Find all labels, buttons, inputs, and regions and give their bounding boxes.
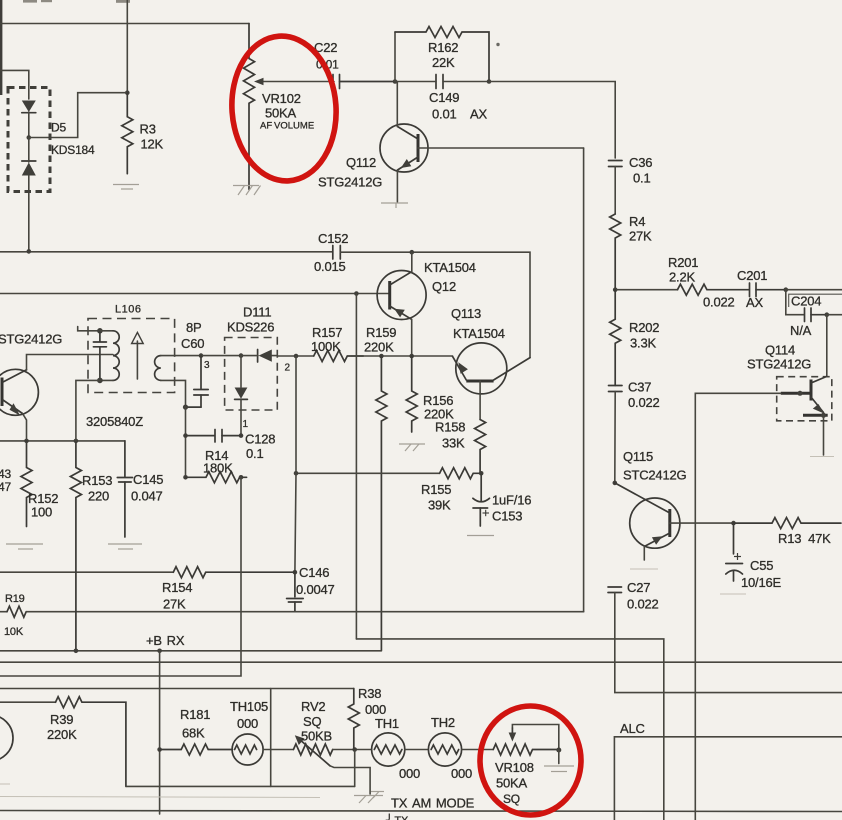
svg-text:KTA1504: KTA1504	[424, 260, 476, 275]
capacitor C153 (electrolytic)	[473, 473, 490, 526]
node: L106 cap bottom	[97, 378, 103, 384]
capacitor C204	[805, 308, 827, 322]
svg-text:SQ: SQ	[303, 714, 321, 729]
svg-text:43: 43	[0, 467, 11, 481]
svg-text:KDS184: KDS184	[51, 143, 95, 157]
ground for R3	[113, 185, 139, 190]
wire: emitter rail with R152/R153 taps	[0, 440, 125, 442]
plus sign C153	[483, 510, 490, 516]
ground fragment left of TX label (faint)	[371, 792, 384, 799]
svg-text:AX: AX	[746, 295, 763, 310]
VR108 wiper arrow and strap	[509, 725, 559, 751]
wire: TH105 to RV2	[263, 749, 293, 751]
node: R181 left junction	[157, 747, 162, 752]
node: C128 left	[183, 433, 188, 438]
wire: top stub tick	[78, 327, 100, 331]
svg-text:180K: 180K	[203, 461, 233, 476]
RV2 wiper arrow	[295, 735, 370, 794]
svg-text:Q12: Q12	[432, 279, 456, 294]
svg-text:C149: C149	[429, 90, 459, 105]
ground for VR102 (hatched)	[233, 186, 261, 196]
dashed box D111	[225, 338, 278, 411]
wire: D111 pin2 rail with R157	[277, 355, 313, 357]
diode D5a (top, cathode down)	[22, 101, 36, 138]
wire: C152 to Q113 collector corner	[340, 252, 530, 357]
node: Q112 collector / C22-C149 junction	[393, 79, 398, 84]
wire: C204 node down to Q114 collector	[826, 315, 828, 377]
svg-text:C55: C55	[750, 558, 773, 573]
svg-text:AX: AX	[470, 107, 487, 122]
svg-text:C152: C152	[318, 231, 348, 246]
wire: down to C128/R14 left	[185, 407, 187, 477]
svg-text:Q112: Q112	[346, 155, 376, 170]
wire: junction to C149	[395, 81, 436, 83]
svg-text:C37: C37	[628, 380, 651, 395]
node: pin2 line to R155 junction	[294, 471, 299, 476]
ground for C55 (faint)	[720, 593, 746, 595]
node: D5 midpoint	[27, 135, 32, 140]
wire: Q12 base rail from left edge	[0, 293, 390, 295]
resistor R158	[475, 420, 486, 474]
svg-text:Q113: Q113	[451, 306, 481, 321]
red annotation circle around VR108	[480, 706, 581, 815]
svg-text:TH105: TH105	[230, 699, 268, 714]
potentiometer VR108	[493, 744, 558, 755]
resistor R38	[348, 689, 359, 750]
svg-text:R157: R157	[312, 325, 342, 340]
svg-text:R201: R201	[668, 255, 698, 270]
svg-text:C27: C27	[627, 580, 650, 595]
svg-text:N/A: N/A	[790, 323, 812, 338]
svg-text:220K: 220K	[364, 340, 394, 355]
wire: link rail E down to R39 line	[270, 689, 272, 787]
svg-text:D5: D5	[51, 121, 66, 135]
svg-text:+B RX: +B RX	[146, 633, 185, 648]
svg-text:27K: 27K	[629, 229, 652, 244]
svg-text:C60: C60	[181, 336, 204, 351]
inductor L106 secondary winding	[155, 356, 201, 408]
node: R38 junction	[352, 747, 357, 752]
ground for RV2 wiper (hatched faint)	[354, 796, 383, 804]
diode D5b (bottom, cathode up)	[22, 138, 36, 252]
svg-text:39K: 39K	[428, 498, 451, 513]
wire: ALC corner	[614, 737, 842, 820]
svg-text:TX AM MODE: TX AM MODE	[391, 796, 475, 811]
svg-text:0.01: 0.01	[432, 107, 457, 122]
node: D5 bottom to C152 rail	[27, 249, 32, 254]
svg-text:0.022: 0.022	[627, 597, 659, 612]
wire: main to right edge	[786, 289, 842, 291]
svg-text:L106: L106	[115, 304, 141, 316]
svg-text:000: 000	[399, 766, 420, 781]
svg-text:0.0047: 0.0047	[296, 582, 335, 597]
thermistor TH2	[428, 733, 461, 766]
wire: riser from lower run	[354, 750, 356, 787]
svg-text:3: 3	[204, 360, 210, 371]
wire: +B RX rail	[0, 650, 381, 652]
node: R154/C146 junction	[293, 570, 298, 575]
svg-text:C128: C128	[245, 432, 275, 447]
wire: R19 rail	[0, 611, 7, 613]
top edge cut text fragments	[23, 0, 130, 3]
svg-text:TH2: TH2	[431, 715, 455, 730]
node: D111 top junction	[239, 353, 244, 358]
capacitor C36	[609, 161, 623, 167]
svg-text:100K: 100K	[311, 339, 341, 354]
svg-text:100: 100	[31, 505, 52, 520]
wire: rail 662 full width	[0, 661, 842, 663]
wire: L106 bottom to R153 line	[76, 380, 100, 441]
ground for R156 (faint)	[399, 444, 425, 451]
wire: R39 lower run to RV2 wiper riser	[126, 785, 355, 787]
wire: junction up to R162 branch	[394, 32, 396, 82]
node: C128 right	[239, 433, 244, 438]
svg-text:R3: R3	[140, 122, 156, 137]
svg-text:C204: C204	[791, 294, 821, 309]
wire: main to right column corner	[489, 82, 615, 159]
svg-text:C36: C36	[629, 155, 652, 170]
svg-text:KDS226: KDS226	[227, 320, 274, 335]
core arrow inside L106	[132, 332, 144, 379]
node: VR108 right terminal	[556, 748, 561, 753]
resistor R162	[395, 27, 489, 82]
svg-text:27K: 27K	[163, 597, 186, 612]
wire: C36 to R4	[614, 167, 616, 215]
svg-text:2: 2	[285, 363, 291, 374]
wire: Q114 emitter down	[823, 415, 825, 455]
node: R152 top	[24, 439, 29, 444]
svg-text:50KA: 50KA	[496, 776, 528, 791]
svg-text:C153: C153	[492, 509, 522, 524]
svg-text:Q114: Q114	[765, 343, 795, 358]
svg-text:C201: C201	[737, 268, 767, 283]
capacitor inside L106	[93, 331, 106, 381]
node: Q114 emitter dot	[821, 413, 826, 418]
capacitor C201	[750, 283, 786, 297]
svg-text:R38: R38	[358, 686, 381, 701]
svg-text:R155: R155	[421, 482, 451, 497]
svg-text:220K: 220K	[47, 727, 77, 742]
wire: pin3 rail to D111	[201, 355, 241, 357]
wire: drop from +B RX to R181 and below	[159, 651, 161, 814]
capacitor C128	[186, 430, 242, 443]
wire: rail F	[0, 811, 842, 812]
svg-text:Q115: Q115	[623, 449, 653, 464]
svg-text:10K: 10K	[4, 626, 24, 638]
svg-text:8P: 8P	[186, 320, 202, 335]
svg-text:50KA: 50KA	[265, 106, 297, 121]
svg-text:R159: R159	[366, 325, 396, 340]
svg-text:STG2412G: STG2412G	[747, 357, 811, 372]
svg-text:R39: R39	[50, 712, 73, 727]
wire: C149 to R162 node	[443, 81, 489, 83]
svg-text:D111: D111	[243, 305, 271, 320]
resistor R4	[610, 214, 621, 290]
wire: C204 branch	[786, 290, 804, 315]
capacitor C146	[287, 572, 304, 612]
node: R153 top	[74, 439, 79, 444]
VR102 wiper arrow	[254, 78, 334, 85]
wire: TH1 to TH2	[405, 749, 429, 751]
dashed box L106	[88, 319, 175, 393]
svg-text:STC2412G: STC2412G	[623, 468, 687, 483]
diode D111b (vertical, cathode down)	[235, 356, 248, 436]
svg-text:0.047: 0.047	[131, 489, 163, 504]
svg-text:0.022: 0.022	[703, 295, 735, 310]
transistor Q112	[380, 82, 584, 203]
wire: Q115 base to R13 node	[670, 522, 734, 524]
C204 label box	[789, 294, 842, 307]
svg-text:000: 000	[365, 702, 386, 717]
wire: vertical from pin2 node to C146	[295, 356, 296, 572]
svg-text:000: 000	[451, 766, 472, 781]
resistor R14	[186, 472, 247, 483]
faint line above R39 lower run	[0, 797, 320, 798]
node: Q115 collector junction	[613, 481, 618, 486]
svg-text:R13 47K: R13 47K	[778, 531, 831, 546]
svg-text:68K: 68K	[182, 726, 205, 741]
svg-text:0.015: 0.015	[314, 259, 346, 274]
node: R158/R155 junction	[479, 471, 484, 476]
wire: rail E to R38 corner	[0, 688, 354, 690]
node: C60 bottom junction	[183, 405, 188, 410]
svg-text:1: 1	[243, 419, 249, 430]
svg-text:R4: R4	[629, 214, 645, 229]
ground for C145 (faint)	[108, 544, 142, 549]
resistor R202	[610, 290, 621, 386]
node: C60 top	[199, 353, 204, 358]
svg-text:VR102: VR102	[262, 91, 301, 106]
ground for Q112 (faint)	[381, 203, 408, 208]
potentiometer VR102	[244, 24, 255, 190]
svg-text:50KB: 50KB	[301, 729, 332, 744]
svg-text:STG2412G: STG2412G	[0, 332, 62, 347]
svg-text:SQ: SQ	[503, 792, 520, 806]
svg-text:12K: 12K	[141, 137, 164, 152]
resistor R3	[122, 93, 133, 174]
node: R13/C55 junction	[731, 521, 736, 526]
transistor Q113	[453, 343, 531, 420]
wire: C27 down to corner then right edge	[615, 593, 842, 693]
wire: R19 rail to Q112 base line	[27, 611, 584, 613]
wire: R201 rail	[615, 289, 677, 291]
svg-text:STG2412G: STG2412G	[318, 175, 382, 190]
left edge scan mark	[0, 0, 2, 95]
wire: D5 mid to R3 junction	[29, 93, 128, 138]
svg-text:10/16E: 10/16E	[741, 575, 782, 590]
svg-text:000: 000	[237, 716, 258, 731]
resistor R201	[678, 284, 749, 295]
ground for R152 (faint)	[6, 544, 43, 549]
wire: R157 to Q113 emitter	[351, 355, 453, 357]
wire: TH2 to VR108	[462, 749, 494, 751]
resistor R157	[314, 351, 364, 362]
resistor R152	[21, 441, 32, 527]
node: R159 top	[379, 354, 384, 359]
svg-text:╯ TX: ╯ TX	[385, 813, 409, 820]
potentiometer RV2	[293, 744, 332, 755]
node: Q12 base bias junction	[354, 291, 359, 296]
svg-text:TH1: TH1	[375, 716, 399, 731]
resistor R19	[7, 606, 26, 617]
wire: Q12 bias line across and down	[356, 639, 663, 820]
svg-text:0.022: 0.022	[628, 395, 660, 410]
svg-text:0.1: 0.1	[246, 446, 263, 461]
svg-text:ALC: ALC	[620, 721, 645, 736]
svg-text:VR108: VR108	[495, 760, 534, 775]
transistor Q12	[377, 252, 426, 356]
wire: left edge into D5 box	[0, 70, 29, 99]
capacitor C149	[436, 75, 443, 89]
wire: top horizontal feed to VR102	[0, 23, 249, 25]
input circle (cut at edge)	[0, 715, 13, 761]
svg-text:3205840Z: 3205840Z	[86, 414, 143, 429]
node: pin2 junction	[294, 354, 299, 359]
wire: VR108 to ground	[558, 750, 560, 764]
capacitor C60	[186, 356, 209, 408]
svg-text:C146: C146	[299, 565, 329, 580]
wire: Q112 base line down right side	[583, 148, 585, 612]
transistor Q (left edge)	[0, 355, 113, 441]
wire: R39 feed	[0, 701, 56, 703]
node: +B RX drop junction	[157, 649, 162, 654]
wire: Q114 base line to left, down	[695, 393, 781, 820]
ground for VR108 (faint)	[544, 766, 574, 772]
svg-text:47: 47	[0, 480, 11, 494]
node: C204 right junction	[825, 312, 830, 317]
inductor L106 primary winding	[100, 331, 119, 381]
svg-text:3.3K: 3.3K	[630, 336, 656, 351]
ground for Q115 (faint)	[630, 568, 658, 570]
wire: D111 line down to rail D	[0, 477, 241, 676]
node: R14 left	[183, 475, 188, 480]
capacitor C22	[333, 75, 395, 89]
red annotation ellipse around VR102	[227, 33, 341, 185]
svg-text:RV2: RV2	[301, 699, 325, 714]
svg-text:R181: R181	[180, 707, 210, 722]
wire: RV2 to junction	[333, 749, 372, 751]
node: C201/C204 junction	[784, 287, 789, 292]
wire: Q12 base bias vertical (crosses R157 rail)	[355, 294, 357, 639]
node: R14 right	[239, 475, 244, 480]
resistor R181	[160, 744, 233, 755]
node: Q114 base dot	[798, 391, 803, 396]
svg-text:33K: 33K	[442, 436, 465, 451]
svg-text:R153: R153	[82, 473, 112, 488]
transistor Q114 (dashed box, no circle)	[777, 377, 832, 421]
svg-text:22K: 22K	[432, 55, 455, 70]
resistor R154	[173, 567, 295, 578]
svg-text:C145: C145	[133, 472, 163, 487]
svg-text:R202: R202	[629, 320, 659, 335]
svg-text:0.1: 0.1	[633, 171, 650, 186]
capacitor C37	[609, 386, 623, 392]
dashed box D5	[8, 88, 50, 192]
svg-text:1uF/16: 1uF/16	[492, 493, 531, 508]
capacitor C145	[117, 441, 132, 537]
scan speck	[496, 43, 499, 46]
svg-text:AF VOLUME: AF VOLUME	[260, 121, 314, 132]
svg-text:R162: R162	[428, 40, 458, 55]
capacitor C55 (electrolytic)	[726, 523, 743, 581]
resistor R159	[376, 356, 387, 651]
plus sign C55	[734, 553, 741, 560]
resistor R13	[734, 518, 842, 529]
resistor R39	[56, 697, 126, 787]
svg-text:R19: R19	[5, 593, 25, 605]
resistor R153	[70, 441, 81, 651]
wire: C204 to right edge	[827, 314, 842, 316]
ground for Q114 (faint)	[810, 456, 834, 458]
svg-text:R158: R158	[435, 420, 465, 435]
node: +B RX / R153 junction	[74, 649, 79, 654]
resistor R156	[406, 356, 417, 432]
node: Q12 emitter / R156 top	[409, 354, 414, 359]
resistor R155	[440, 468, 482, 479]
node: L106 cap top	[97, 328, 103, 334]
ground for C153 (faint)	[467, 535, 494, 537]
node: R4/R201/R202 junction	[613, 287, 618, 292]
ground fragment lower-left (faint)	[0, 783, 10, 785]
svg-text:KTA1504: KTA1504	[453, 326, 505, 341]
svg-text:R154: R154	[162, 580, 192, 595]
node: R162/C149 right junction	[487, 79, 492, 84]
thermistor TH1	[372, 733, 405, 766]
wire: C152 rail	[0, 251, 333, 253]
wire: vertical from top edge to R3 junction	[126, 0, 128, 93]
svg-text:220: 220	[88, 489, 109, 504]
capacitor C27	[608, 587, 622, 593]
transistor Q115	[615, 483, 680, 560]
capacitor C152	[333, 246, 341, 260]
thermistor TH105	[232, 734, 263, 765]
node: Q12 collector junction	[410, 250, 415, 255]
wire: C37 down to Q115 collector node	[614, 392, 616, 483]
wire: R155 rail	[296, 472, 440, 474]
wire: R154 rail from left edge	[0, 571, 173, 573]
svg-text:2.2K: 2.2K	[669, 270, 695, 285]
diode D111a (horizontal, cathode left)	[241, 350, 277, 363]
node: R3 top junction	[125, 90, 130, 95]
